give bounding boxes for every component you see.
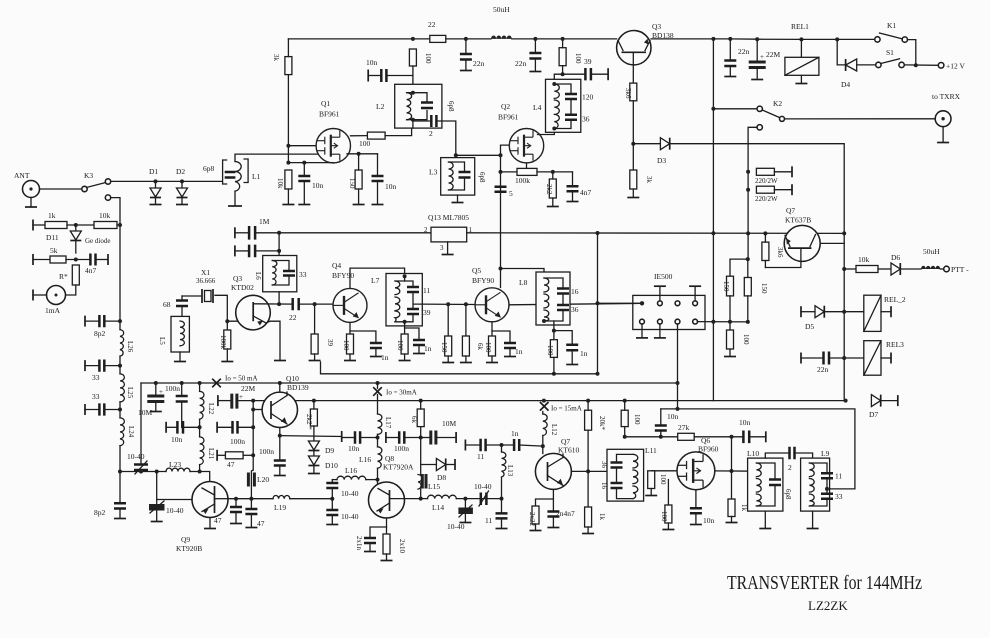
svg-text:6k: 6k xyxy=(476,343,484,351)
svg-text:D5: D5 xyxy=(805,322,814,331)
svg-text:REL3: REL3 xyxy=(886,340,904,349)
svg-text:1k: 1k xyxy=(740,504,748,512)
svg-text:68: 68 xyxy=(163,300,171,309)
svg-text:39: 39 xyxy=(326,339,334,347)
svg-text:27k: 27k xyxy=(678,423,690,432)
svg-text:6p8: 6p8 xyxy=(784,489,792,500)
svg-text:39: 39 xyxy=(584,57,592,66)
svg-text:47: 47 xyxy=(214,516,222,525)
svg-text:33: 33 xyxy=(92,392,100,401)
svg-text:1n: 1n xyxy=(424,344,432,353)
svg-text:Q2: Q2 xyxy=(501,102,510,111)
svg-text:L14: L14 xyxy=(432,503,444,512)
svg-text:6p8: 6p8 xyxy=(203,164,215,173)
svg-text:3k6: 3k6 xyxy=(776,247,784,258)
svg-text:22M: 22M xyxy=(766,50,781,59)
svg-text:Q3: Q3 xyxy=(233,274,242,283)
svg-text:10n: 10n xyxy=(739,418,751,427)
svg-text:KT7920A: KT7920A xyxy=(383,463,414,472)
svg-text:10M: 10M xyxy=(138,408,153,417)
svg-text:6p8: 6p8 xyxy=(447,101,455,112)
svg-text:Q4: Q4 xyxy=(332,261,341,270)
svg-text:100n: 100n xyxy=(259,447,274,456)
svg-text:47: 47 xyxy=(257,519,265,528)
svg-text:L2: L2 xyxy=(376,102,385,111)
svg-text:S1: S1 xyxy=(886,48,894,57)
svg-text:KT610: KT610 xyxy=(558,446,579,455)
svg-text:PTT -: PTT - xyxy=(951,265,969,274)
svg-text:L19: L19 xyxy=(274,503,286,512)
svg-text:22n: 22n xyxy=(515,59,527,68)
svg-text:120: 120 xyxy=(582,93,594,102)
svg-text:1n: 1n xyxy=(381,353,389,362)
svg-text:Q3: Q3 xyxy=(652,22,661,31)
svg-text:2: 2 xyxy=(429,129,433,138)
svg-text:L15: L15 xyxy=(428,482,440,491)
svg-text:100: 100 xyxy=(359,139,371,148)
svg-text:39: 39 xyxy=(423,308,431,317)
svg-text:10n: 10n xyxy=(171,435,183,444)
svg-text:1n: 1n xyxy=(580,349,588,358)
svg-text:150: 150 xyxy=(348,178,356,189)
svg-text:22M: 22M xyxy=(241,384,256,393)
svg-text:L25: L25 xyxy=(126,387,134,399)
svg-text:150: 150 xyxy=(440,342,448,353)
svg-text:1k: 1k xyxy=(598,513,606,521)
svg-text:10-40: 10-40 xyxy=(127,452,145,461)
svg-text:BF961: BF961 xyxy=(319,110,340,119)
svg-text:33: 33 xyxy=(92,373,100,382)
svg-text:36.666: 36.666 xyxy=(196,277,216,285)
svg-text:8p2: 8p2 xyxy=(94,329,106,338)
svg-text:10k: 10k xyxy=(276,178,284,189)
svg-text:2: 2 xyxy=(788,463,792,472)
svg-text:D10: D10 xyxy=(325,461,338,470)
svg-text:D11: D11 xyxy=(46,233,59,242)
svg-text:5k: 5k xyxy=(50,246,58,255)
svg-text:4n7: 4n7 xyxy=(580,188,592,197)
svg-text:L1: L1 xyxy=(252,172,261,181)
svg-text:D9: D9 xyxy=(325,446,334,455)
svg-text:10n: 10n xyxy=(366,58,378,67)
svg-text:33: 33 xyxy=(835,492,843,501)
svg-text:33: 33 xyxy=(299,270,307,279)
svg-text:D2: D2 xyxy=(176,167,185,176)
svg-text:50uH: 50uH xyxy=(923,247,940,256)
svg-text:2x1n: 2x1n xyxy=(355,536,363,551)
svg-text:22: 22 xyxy=(289,313,297,322)
svg-text:+: + xyxy=(760,53,764,61)
svg-text:3k: 3k xyxy=(272,54,280,62)
svg-text:BFY90: BFY90 xyxy=(472,276,494,285)
svg-text:10n: 10n xyxy=(312,181,324,190)
svg-text:22n: 22n xyxy=(817,365,829,374)
svg-text:D1: D1 xyxy=(149,167,158,176)
svg-text:TRANSVERTER for 144MHz: TRANSVERTER for 144MHz xyxy=(727,573,922,594)
svg-text:D4: D4 xyxy=(841,80,850,89)
svg-text:1mA: 1mA xyxy=(45,306,61,315)
svg-text:100: 100 xyxy=(484,342,492,353)
svg-text:11: 11 xyxy=(485,516,492,525)
svg-text:L17: L17 xyxy=(384,417,392,429)
svg-text:220/2W: 220/2W xyxy=(755,195,778,203)
svg-text:22: 22 xyxy=(428,20,436,29)
svg-text:36: 36 xyxy=(600,461,608,469)
svg-text:Ge diode: Ge diode xyxy=(85,237,110,245)
svg-text:10M: 10M xyxy=(442,419,457,428)
svg-text:Q5: Q5 xyxy=(472,266,481,275)
svg-text:L11: L11 xyxy=(645,446,657,455)
svg-text:100n: 100n xyxy=(394,444,409,453)
svg-text:2n4n7: 2n4n7 xyxy=(556,509,575,518)
svg-text:K1: K1 xyxy=(887,21,896,30)
svg-text:BD139: BD139 xyxy=(287,383,309,392)
svg-text:Q10: Q10 xyxy=(286,374,299,383)
svg-text:150: 150 xyxy=(722,281,730,292)
svg-text:1M: 1M xyxy=(259,217,270,226)
svg-text:100: 100 xyxy=(633,414,641,425)
svg-text:2: 2 xyxy=(424,226,428,234)
svg-text:6p8: 6p8 xyxy=(478,172,486,183)
svg-text:IE500: IE500 xyxy=(654,272,673,281)
svg-text:K3: K3 xyxy=(84,171,93,180)
svg-text:10-40: 10-40 xyxy=(447,522,465,531)
svg-text:L9: L9 xyxy=(821,449,830,458)
svg-text:L6: L6 xyxy=(254,272,262,280)
svg-text:10k: 10k xyxy=(858,255,870,264)
svg-text:10-40: 10-40 xyxy=(166,506,184,515)
svg-text:6k: 6k xyxy=(410,416,418,424)
svg-text:+12 V: +12 V xyxy=(946,62,965,71)
svg-text:LZ2ZK: LZ2ZK xyxy=(808,598,848,613)
svg-text:2k2 *: 2k2 * xyxy=(305,414,313,430)
svg-text:47: 47 xyxy=(227,460,235,469)
svg-text:11: 11 xyxy=(477,452,484,461)
svg-text:Q7: Q7 xyxy=(786,206,795,215)
svg-text:220/2W: 220/2W xyxy=(755,177,778,185)
svg-text:R*: R* xyxy=(59,272,68,281)
svg-text:10n: 10n xyxy=(667,412,679,421)
svg-text:1k: 1k xyxy=(48,211,56,220)
svg-text:KT920B: KT920B xyxy=(176,544,202,553)
svg-text:10n: 10n xyxy=(703,516,715,525)
svg-text:100k: 100k xyxy=(515,176,530,185)
svg-text:16: 16 xyxy=(600,482,608,490)
svg-text:L3: L3 xyxy=(429,168,438,177)
svg-text:KTD02: KTD02 xyxy=(231,283,254,292)
svg-text:2k2: 2k2 xyxy=(545,184,553,195)
svg-text:L20: L20 xyxy=(257,475,269,484)
svg-text:L22: L22 xyxy=(207,403,215,415)
svg-text:Q9: Q9 xyxy=(181,535,190,544)
svg-text:20k*: 20k* xyxy=(598,416,606,431)
svg-text:K2: K2 xyxy=(773,99,782,108)
svg-text:10-40: 10-40 xyxy=(341,489,359,498)
svg-text:L21: L21 xyxy=(207,448,215,460)
svg-text:L10: L10 xyxy=(747,449,759,458)
svg-text:36: 36 xyxy=(571,305,579,314)
svg-text:100: 100 xyxy=(546,345,554,356)
svg-text:KT637B: KT637B xyxy=(785,216,811,225)
svg-text:REL1: REL1 xyxy=(791,22,809,31)
svg-text:3: 3 xyxy=(440,244,444,252)
svg-text:L7: L7 xyxy=(371,276,380,285)
svg-text:D8: D8 xyxy=(437,473,446,482)
svg-text:L23: L23 xyxy=(169,460,181,469)
svg-text:11: 11 xyxy=(423,286,430,295)
svg-text:Q13 ML7805: Q13 ML7805 xyxy=(428,213,469,222)
svg-text:50uH: 50uH xyxy=(493,5,510,14)
svg-text:L5: L5 xyxy=(158,337,166,345)
svg-text:36: 36 xyxy=(582,115,590,124)
svg-text:Io = 50 mA: Io = 50 mA xyxy=(225,375,258,383)
svg-text:4n7: 4n7 xyxy=(85,266,97,275)
svg-text:Io = 30mA: Io = 30mA xyxy=(386,389,417,397)
svg-text:10-40: 10-40 xyxy=(474,482,492,491)
svg-text:L13: L13 xyxy=(506,465,514,477)
svg-text:REL_2: REL_2 xyxy=(884,295,906,304)
svg-text:100: 100 xyxy=(742,334,750,345)
svg-text:150: 150 xyxy=(760,283,768,294)
svg-text:3k6: 3k6 xyxy=(624,88,632,99)
svg-text:100: 100 xyxy=(574,53,582,64)
svg-text:10n: 10n xyxy=(348,444,360,453)
svg-text:L4: L4 xyxy=(533,103,542,112)
svg-text:5: 5 xyxy=(509,189,513,198)
svg-text:11: 11 xyxy=(835,472,842,481)
svg-text:BFY90: BFY90 xyxy=(332,271,354,280)
svg-text:10k: 10k xyxy=(99,211,111,220)
svg-text:L16: L16 xyxy=(359,455,371,464)
svg-text:to TXRX: to TXRX xyxy=(932,92,961,101)
svg-text:10-40: 10-40 xyxy=(341,512,359,521)
svg-text:L24: L24 xyxy=(127,426,135,438)
svg-text:L8: L8 xyxy=(519,278,528,287)
svg-text:100: 100 xyxy=(342,340,350,351)
svg-text:L16: L16 xyxy=(345,466,357,475)
svg-text:100k: 100k xyxy=(219,335,227,350)
svg-text:1n: 1n xyxy=(515,347,523,356)
svg-text:10n: 10n xyxy=(385,182,397,191)
svg-text:3k: 3k xyxy=(645,176,653,184)
svg-text:BF960: BF960 xyxy=(698,445,719,454)
svg-text:100: 100 xyxy=(659,474,667,485)
svg-text:22n: 22n xyxy=(738,47,750,56)
svg-text:BF961: BF961 xyxy=(498,113,519,122)
svg-text:2x10: 2x10 xyxy=(398,539,406,554)
svg-text:X1: X1 xyxy=(201,268,210,277)
svg-text:100: 100 xyxy=(424,53,432,64)
svg-text:100n: 100n xyxy=(230,437,245,446)
svg-text:16: 16 xyxy=(571,287,579,296)
svg-text:D3: D3 xyxy=(657,156,666,165)
svg-text:D6: D6 xyxy=(891,253,900,262)
svg-text:Io = 15mA: Io = 15mA xyxy=(551,405,582,413)
svg-text:100: 100 xyxy=(396,340,404,351)
svg-text:2x22: 2x22 xyxy=(528,512,536,527)
svg-text:D7: D7 xyxy=(869,410,878,419)
svg-text:+: + xyxy=(159,388,163,396)
svg-text:100: 100 xyxy=(660,511,668,522)
svg-text:+: + xyxy=(239,393,243,401)
svg-text:L26: L26 xyxy=(126,341,134,353)
svg-text:L12: L12 xyxy=(550,424,558,436)
svg-text:8p2: 8p2 xyxy=(94,508,106,517)
svg-text:ANT: ANT xyxy=(14,171,30,180)
svg-text:1n: 1n xyxy=(511,429,519,438)
svg-text:Q1: Q1 xyxy=(321,99,330,108)
svg-text:100n: 100n xyxy=(165,384,180,393)
svg-text:22n: 22n xyxy=(473,59,485,68)
